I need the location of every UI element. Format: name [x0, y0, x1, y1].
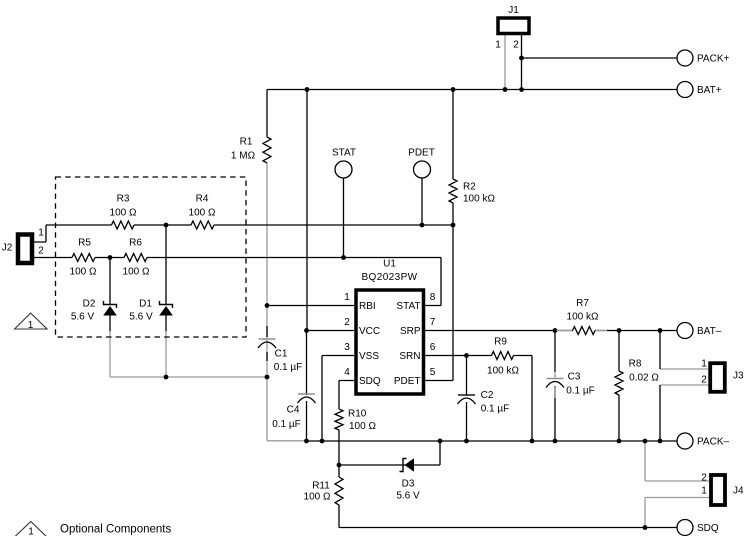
svg-text:STAT: STAT [396, 301, 420, 312]
svg-text:100 Ω: 100 Ω [189, 208, 216, 219]
svg-text:Optional Components: Optional Components [60, 524, 171, 536]
svg-text:0.1 µF: 0.1 µF [566, 386, 595, 397]
svg-text:5.6 V: 5.6 V [71, 312, 95, 323]
svg-text:100 kΩ: 100 kΩ [463, 194, 495, 205]
svg-text:2: 2 [344, 317, 350, 328]
svg-text:R2: R2 [463, 182, 476, 193]
svg-text:R7: R7 [576, 298, 589, 309]
svg-text:J1: J1 [508, 5, 519, 16]
svg-text:1: 1 [28, 527, 34, 537]
svg-text:R11: R11 [312, 481, 330, 492]
svg-text:2: 2 [701, 375, 707, 386]
svg-text:8: 8 [430, 292, 436, 303]
svg-text:1: 1 [344, 292, 350, 303]
svg-text:2: 2 [513, 40, 519, 51]
svg-text:R3: R3 [117, 194, 130, 205]
svg-text:SRN: SRN [399, 351, 420, 362]
svg-text:J2: J2 [2, 243, 13, 254]
svg-text:7: 7 [430, 317, 436, 328]
svg-text:4: 4 [344, 367, 350, 378]
svg-text:R10: R10 [348, 409, 367, 420]
svg-text:BQ2023PW: BQ2023PW [361, 272, 417, 283]
svg-text:BAT+: BAT+ [697, 85, 722, 96]
svg-text:100 Ω: 100 Ω [110, 208, 137, 219]
svg-text:PDET: PDET [408, 148, 435, 159]
svg-text:0.1 µF: 0.1 µF [272, 419, 301, 430]
svg-text:3: 3 [344, 342, 350, 353]
svg-text:1: 1 [701, 359, 707, 370]
svg-text:J3: J3 [733, 371, 744, 382]
svg-text:D1: D1 [139, 299, 152, 310]
svg-text:R1: R1 [240, 137, 253, 148]
svg-text:100 kΩ: 100 kΩ [487, 366, 519, 377]
svg-text:5: 5 [430, 367, 436, 378]
svg-text:SDQ: SDQ [697, 523, 719, 534]
svg-text:RBI: RBI [359, 301, 376, 312]
svg-text:100 Ω: 100 Ω [304, 492, 331, 503]
svg-text:100 kΩ: 100 kΩ [567, 312, 599, 323]
svg-text:0.1 µF: 0.1 µF [274, 362, 303, 373]
svg-text:100 Ω: 100 Ω [349, 421, 376, 432]
svg-text:C2: C2 [481, 390, 494, 401]
svg-text:PDET: PDET [394, 376, 421, 387]
svg-text:1 MΩ: 1 MΩ [231, 151, 256, 162]
svg-text:1: 1 [701, 486, 707, 497]
svg-text:2: 2 [38, 246, 44, 257]
svg-text:PACK–: PACK– [697, 437, 729, 448]
svg-text:R5: R5 [78, 238, 91, 249]
svg-text:C1: C1 [275, 349, 288, 360]
svg-text:R4: R4 [196, 194, 209, 205]
svg-text:SDQ: SDQ [359, 376, 381, 387]
svg-text:STAT: STAT [332, 148, 356, 159]
svg-text:R9: R9 [494, 337, 507, 348]
svg-text:R8: R8 [629, 359, 642, 370]
svg-text:0.1 µF: 0.1 µF [481, 404, 510, 415]
svg-text:U1: U1 [383, 259, 396, 270]
svg-text:C4: C4 [287, 405, 300, 416]
svg-text:5.6 V: 5.6 V [396, 491, 420, 502]
svg-text:0.02 Ω: 0.02 Ω [629, 373, 659, 384]
svg-text:100 Ω: 100 Ω [123, 267, 150, 278]
svg-text:100 Ω: 100 Ω [70, 267, 97, 278]
svg-text:2: 2 [701, 473, 707, 484]
svg-text:VSS: VSS [359, 351, 379, 362]
svg-text:C3: C3 [568, 372, 581, 383]
svg-text:5.6 V: 5.6 V [129, 312, 153, 323]
svg-text:SRP: SRP [400, 326, 421, 337]
svg-text:6: 6 [430, 342, 436, 353]
svg-text:1: 1 [28, 320, 34, 331]
svg-text:R6: R6 [129, 238, 142, 249]
svg-text:D3: D3 [402, 479, 415, 490]
svg-text:J4: J4 [733, 486, 744, 497]
svg-text:1: 1 [495, 40, 501, 51]
svg-text:VCC: VCC [359, 326, 380, 337]
svg-text:D2: D2 [83, 299, 96, 310]
svg-text:1: 1 [38, 228, 44, 239]
svg-text:PACK+: PACK+ [697, 54, 729, 65]
svg-text:BAT–: BAT– [697, 326, 722, 337]
